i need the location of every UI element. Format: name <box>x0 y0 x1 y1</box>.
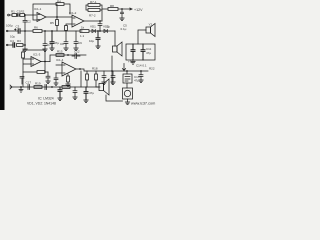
node K0 <box>45 61 46 62</box>
resistor block RP1 <box>123 74 132 83</box>
wire <box>80 71 82 87</box>
resistor R19 <box>34 86 42 89</box>
wire inverting input IC1-2 <box>66 24 72 31</box>
svg-text:R7-2: R7-2 <box>89 13 96 17</box>
capacitor C21 <box>58 87 62 98</box>
ground <box>125 102 129 105</box>
capacitor C14 <box>20 77 24 85</box>
wire power rail <box>102 8 108 10</box>
capacitor C12 <box>131 44 135 60</box>
bottom bus wire <box>10 86 100 88</box>
svg-text:R7-1: R7-1 <box>90 0 97 4</box>
capacitor C7 <box>43 31 47 49</box>
op-amp IC1-2 <box>72 15 84 27</box>
resistor R4 <box>56 3 64 6</box>
capacitor C15 <box>72 54 80 59</box>
resistor R20 <box>62 86 70 89</box>
resistor R1 <box>12 14 17 17</box>
capacitor C20 <box>28 85 30 90</box>
svg-text:www.ic37.com: www.ic37.com <box>131 102 155 106</box>
wire output IC1-2 <box>84 20 102 22</box>
svg-text:Y2: Y2 <box>149 23 153 27</box>
ground <box>139 80 143 83</box>
svg-text:C2: C2 <box>27 20 31 24</box>
parts list text <box>27 97 56 106</box>
resistor R9 <box>65 26 68 31</box>
ground <box>84 100 88 103</box>
svg-text:C8: C8 <box>60 42 64 46</box>
ground <box>64 48 68 51</box>
node A <box>25 15 26 16</box>
wire <box>95 71 97 87</box>
ground <box>50 48 54 51</box>
svg-text:VD1: VD1 <box>90 25 96 29</box>
plus mark <box>15 29 16 30</box>
node E <box>122 9 123 10</box>
svg-text:C4: C4 <box>10 39 14 43</box>
box output network <box>126 44 155 60</box>
wire lower fb <box>23 71 37 73</box>
ground <box>74 48 78 51</box>
capacitor C1 <box>17 14 20 17</box>
wire <box>45 71 48 73</box>
node R <box>112 71 113 72</box>
wire <box>23 58 31 87</box>
resistor R2 <box>20 14 25 17</box>
wire feedback IC1-3 <box>23 50 45 62</box>
svg-text:IC1-4: IC1-4 <box>56 58 64 62</box>
wire <box>64 4 70 14</box>
wire <box>45 62 48 77</box>
wire inputs IC1-4 <box>56 65 62 73</box>
svg-text:1.1: 1.1 <box>80 34 85 38</box>
wire <box>25 14 37 16</box>
svg-text:VD2: VD2 <box>103 25 109 29</box>
wire <box>106 95 123 101</box>
capacitor C19 <box>139 71 143 80</box>
labels <box>6 0 155 95</box>
wire <box>9 14 12 16</box>
resistor R8 <box>108 8 118 11</box>
wire output IC1-1 <box>46 16 72 18</box>
svg-text:C14 0.1: C14 0.1 <box>136 64 147 68</box>
ground <box>73 97 77 100</box>
capacitor C8 <box>50 31 54 48</box>
power arrow feed <box>122 64 125 72</box>
node D <box>100 21 101 22</box>
resistor R6 <box>33 30 42 33</box>
svg-text:C17: C17 <box>26 81 32 85</box>
resistor R13 <box>22 52 25 58</box>
svg-text:47μ: 47μ <box>134 79 139 83</box>
node G <box>25 31 26 32</box>
svg-text:IC1-2: IC1-2 <box>69 11 77 15</box>
ground <box>46 81 50 84</box>
node Q2 <box>52 87 53 88</box>
node B <box>57 17 58 18</box>
resistor R18 <box>95 74 98 80</box>
resistor R15 <box>56 54 64 57</box>
node N <box>127 71 128 72</box>
node J <box>98 31 99 32</box>
op-amp IC1-3 <box>31 57 41 67</box>
capacitor C2 <box>23 21 27 31</box>
svg-text:47μ: 47μ <box>54 41 59 45</box>
wire <box>127 99 129 102</box>
wire speaker Y1 drop <box>111 56 113 84</box>
svg-text:47μ: 47μ <box>146 51 151 55</box>
speaker Y2 <box>146 27 151 33</box>
op-amp IC1-1 <box>37 13 46 22</box>
capacitor C4 <box>13 43 15 47</box>
svg-text:C7: C7 <box>47 43 51 47</box>
ground <box>54 83 58 86</box>
capacitor C11 <box>96 31 100 46</box>
svg-text:R6: R6 <box>34 26 38 30</box>
node Q <box>21 87 22 88</box>
speaker Y1 <box>114 31 116 46</box>
wire <box>118 8 132 10</box>
capacitor C13 <box>141 44 145 60</box>
wire mid bus <box>8 30 33 32</box>
node P terminal <box>10 85 12 89</box>
svg-text:IC1-1: IC1-1 <box>34 7 42 11</box>
wire <box>86 71 88 87</box>
svg-text:VD1, VD2: 1N4148: VD1, VD2: 1N4148 <box>27 102 56 106</box>
node IN1 terminal <box>8 14 10 16</box>
svg-text:C3: C3 <box>16 25 20 29</box>
node M <box>80 69 81 70</box>
wire <box>8 44 13 46</box>
wire <box>67 74 69 84</box>
ground <box>102 82 106 85</box>
ground <box>19 87 23 92</box>
capacitor C5 <box>121 9 124 18</box>
svg-text:1k: 1k <box>81 26 85 30</box>
capacitor C16 <box>54 78 58 83</box>
svg-text:0.1μ: 0.1μ <box>121 27 127 31</box>
diode VD1 <box>92 30 98 33</box>
wire top link stage4 <box>50 55 86 62</box>
svg-text:R8: R8 <box>110 4 114 8</box>
svg-text:IC1-3: IC1-3 <box>33 53 41 57</box>
wire <box>42 30 82 32</box>
svg-text:R18: R18 <box>92 67 98 71</box>
svg-text:R2: R2 <box>21 9 25 13</box>
ground <box>43 49 47 52</box>
ground <box>120 18 124 21</box>
node J2 <box>100 31 101 32</box>
scan border bar <box>0 0 5 110</box>
resistor R16 <box>67 76 70 82</box>
wire <box>98 30 104 32</box>
resistor R5 <box>56 20 59 26</box>
node H <box>45 31 46 32</box>
svg-text:100μ: 100μ <box>6 24 13 28</box>
wire right net <box>138 30 146 44</box>
svg-text:10μ: 10μ <box>10 35 15 39</box>
svg-text:10μ: 10μ <box>89 39 94 43</box>
wire <box>24 15 26 20</box>
svg-text:IC: LM324: IC: LM324 <box>38 97 54 101</box>
wire inverting feedback <box>33 4 56 20</box>
svg-text:R4: R4 <box>57 0 61 3</box>
op-amp IC1-4 <box>62 62 76 76</box>
resistor R14 <box>37 71 45 74</box>
capacitor C9 <box>64 31 68 48</box>
wire feedback IC1-2 <box>86 5 102 21</box>
capacitor C10 <box>74 31 78 48</box>
wire <box>89 30 92 32</box>
wire <box>56 4 58 31</box>
svg-text:R5: R5 <box>50 21 54 25</box>
wire <box>55 73 57 78</box>
node K <box>45 72 46 73</box>
diode VD2 <box>104 30 115 33</box>
svg-text:47μ: 47μ <box>89 91 94 95</box>
node L <box>68 55 69 56</box>
node O <box>141 71 142 72</box>
power arrow +12V <box>130 8 132 10</box>
svg-text:R19: R19 <box>35 82 41 86</box>
capacitor C23 <box>45 85 47 90</box>
resistor R7-2 <box>88 9 100 12</box>
svg-text:R22: R22 <box>149 67 155 71</box>
svg-text:C9: C9 <box>78 41 82 45</box>
wire <box>23 44 25 46</box>
svg-text:R1: R1 <box>11 9 15 13</box>
resistor R17 <box>86 74 89 80</box>
node I <box>52 31 53 32</box>
wire <box>24 31 26 49</box>
capacitor C17 <box>102 71 106 82</box>
ground <box>131 62 135 65</box>
speaker Y3 <box>96 86 99 88</box>
svg-text:R3: R3 <box>17 39 21 43</box>
node IN2 terminal <box>6 44 8 46</box>
ground <box>23 49 27 52</box>
svg-text:+12V: +12V <box>134 8 143 12</box>
node F <box>25 45 26 46</box>
capacitor C3 <box>18 29 20 33</box>
resistor R7-1 <box>88 4 100 7</box>
ground <box>111 82 115 85</box>
ground <box>58 98 62 101</box>
capacitor C24 <box>46 76 50 81</box>
ground <box>96 46 100 49</box>
capacitor C6 <box>98 21 102 31</box>
resistor R4b <box>17 44 24 47</box>
microphone BM1 <box>123 88 133 99</box>
ground <box>66 84 70 87</box>
wire output IC1-3 <box>41 61 50 63</box>
node G2 terminal <box>6 30 8 32</box>
capacitor C16 <box>84 87 88 100</box>
capacitor C18 <box>111 71 115 82</box>
wire <box>126 71 128 88</box>
svg-text:C12: C12 <box>74 50 80 54</box>
capacitor C22 <box>73 87 77 97</box>
resistor R11 <box>80 30 89 33</box>
svg-text:+12V: +12V <box>128 60 135 64</box>
svg-text:R15: R15 <box>57 50 63 54</box>
wire output IC1-4 <box>76 69 148 71</box>
